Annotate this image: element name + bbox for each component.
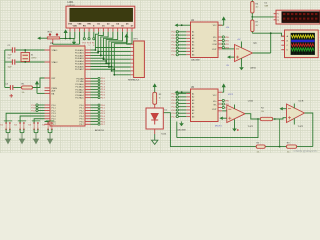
svg-text:A3: A3 [192,37,194,40]
svg-text:LCD1: LCD1 [68,2,75,4]
U5 right terminals [218,99,224,108]
svg-text:P0.7/AD7: P0.7/AD7 [75,68,84,71]
wire button S2 to P1.4 [20,116,44,123]
wire button S3 to P1.5 [34,119,44,123]
net labels U5 right [225,100,230,109]
junction R4 left [257,118,259,120]
op-amp U3 UA741 [235,43,258,70]
svg-text:1k: 1k [159,98,161,100]
resistor pack RP1 RESPACK-8 [128,39,144,82]
svg-text:A4: A4 [192,40,194,43]
ground under button S3 [33,129,39,143]
svg-text:PSEN: PSEN [52,88,58,90]
svg-text:VR-: VR- [213,41,216,43]
ground under button S1 [5,129,11,143]
svg-text:COM: COM [212,44,217,46]
ground under U3 [239,66,244,70]
svg-text:P3: P3 [277,20,279,22]
svg-text:P2: P2 [277,17,279,19]
svg-text:TL072: TL072 [298,126,305,128]
wire VDD rail [60,32,75,39]
svg-text:A1: A1 [192,31,194,34]
wire feedback lower rail [163,113,312,147]
svg-text:P2.7/A15: P2.7/A15 [75,97,84,100]
MCU right pin name labels [75,49,84,126]
resistor R7 [251,17,259,33]
svg-text:ALE: ALE [52,90,56,93]
junction XTAL nodes [24,49,26,63]
ground terminal at U4A plus input [219,117,226,120]
DAC U5 DAC0808 body [191,87,219,122]
svg-text:VDD: VDD [73,26,78,28]
wire XTAL2 [16,61,45,63]
wire U4A output to R4 [245,114,258,119]
capacitor C2 [5,57,15,68]
wire button S1 to P1.3 [6,113,44,122]
wire XTAL1 [16,49,45,51]
node RS RW E terminals [83,32,95,40]
wire feedback upper [177,119,258,138]
ground for LCD VSS [72,39,77,45]
svg-text:10k: 10k [261,111,264,113]
svg-text:A6: A6 [192,109,194,112]
svg-text:U4:A: U4:A [248,99,253,102]
svg-text:A2: A2 [192,96,194,99]
svg-text:A8: A8 [192,53,194,56]
net labels U2 right [225,37,230,50]
svg-text:P2.1/A9: P2.1/A9 [76,80,84,83]
svg-text:U4:B: U4:B [299,100,304,102]
svg-text:TL431: TL431 [161,134,166,136]
wire R1 to RST [33,78,45,88]
svg-text:P0.3/AD3: P0.3/AD3 [75,57,84,60]
watermark [294,149,318,153]
U4B power pins [293,104,295,125]
LED bar display pin labels [277,14,279,22]
svg-text:5: 5 [89,45,90,47]
push button S3 [28,121,40,130]
LCD module LCD1 labels [68,2,76,7]
wire to bar display [252,16,273,18]
ground terminal at U4B plus input [279,107,286,110]
junction U2 gnd [181,24,183,26]
svg-text:CSDN @dzsczzh: CSDN @dzsczzh [294,149,318,153]
junction lower rail [279,146,281,148]
ground under U4A [232,128,239,132]
power +5V for RP1 [124,34,130,45]
net label blue above U4A [228,94,233,96]
capacitor C1 [5,45,15,56]
svg-text:12MHz: 12MHz [31,58,37,60]
svg-text:10k: 10k [287,151,290,153]
power +5V terminal for LCD VDD [64,29,68,38]
net labels MCU P2 and P3 ports [101,78,106,126]
LED bar display segments [283,13,317,22]
svg-text:RW: RW [87,23,90,25]
power +5V at R2 [153,83,157,89]
resistor R3 [287,143,297,154]
node P1.0-P1.2 terminals [36,104,45,112]
resistor R5 [256,143,265,154]
resistor R4 [258,108,275,121]
oscilloscope pins [281,35,288,52]
wire LCD data bus to P0 and RP1 [91,32,132,75]
svg-text:RESPACK-8: RESPACK-8 [128,79,140,82]
push button S2 [14,121,26,130]
svg-text:P2.3/A11: P2.3/A11 [76,86,85,89]
svg-text:DAC0808: DAC0808 [191,59,201,62]
ground under U5 [179,122,184,127]
microcontroller U1 AT89C51 body [50,43,85,126]
U2 right terminals [218,36,224,49]
svg-text:P0.1/AD1: P0.1/AD1 [75,52,84,55]
svg-text:P0.6/AD6: P0.6/AD6 [75,65,84,68]
svg-text:4k7: 4k7 [256,25,259,27]
DAC U2 DAC0808 body [191,20,219,58]
svg-text:AT89C51: AT89C51 [95,129,105,132]
LED bar display body [276,10,320,24]
svg-text:DAC0808: DAC0808 [177,128,187,131]
wire R4 to U4B [275,118,287,119]
svg-text:VCC2: VCC2 [228,94,233,96]
ground under button S2 [19,129,25,143]
net labels U2 inputs [171,32,176,57]
svg-text:TL072: TL072 [248,126,255,128]
MCU value label AT89C51 [95,129,105,132]
svg-text:P0.5/AD5: P0.5/AD5 [75,63,84,66]
MCU right pins [85,50,91,124]
push button S1 [0,121,12,130]
wire VEE down [53,32,80,44]
svg-text:P0.2/AD2: P0.2/AD2 [75,54,84,57]
ground terminal at U3 plus input [227,55,235,58]
junction VDD [65,38,71,40]
scope trace A yellow [291,35,314,38]
svg-text:A1: A1 [192,92,194,95]
svg-text:P1: P1 [277,14,279,16]
scope trace C red [291,44,314,47]
ground under diode block [152,129,158,144]
wire U5 IOUT to U4A [218,109,227,111]
svg-text:A8: A8 [192,115,194,118]
LCD pins 1-14 [70,28,132,32]
svg-text:A7: A7 [192,112,194,115]
power +5V at U5 VCC [218,83,226,92]
scope trace B blue [291,40,314,43]
junction R6 R7 node [251,16,253,18]
U2 value label DAC0808 [191,59,201,62]
wire mid tap [279,119,281,147]
svg-text:MOUT1: MOUT1 [215,125,222,127]
svg-text:A2: A2 [192,34,194,37]
wire U2 IOUT to U3 [218,48,235,50]
svg-text:P2.6/A14: P2.6/A14 [75,94,84,97]
svg-text:A5: A5 [192,105,194,108]
diode block D1 [146,108,168,136]
LED bar display labels [265,2,269,7]
svg-text:A7: A7 [192,50,194,53]
wire ground rail left [4,50,6,88]
oscilloscope graticule [291,33,315,55]
U4A power pins [234,105,236,128]
junction dots P0 bus [95,49,116,76]
wire U3 node to scope [252,32,284,36]
power +5V at EA pin [35,81,45,94]
svg-text:P2.5/A13: P2.5/A13 [75,91,84,94]
svg-text:A6: A6 [192,47,194,50]
power +5V at U2 VCC [218,16,226,25]
svg-text:A3: A3 [192,99,194,102]
junction U5 gnd [181,91,183,93]
U2 inner pin labels [192,25,217,56]
resistor R2 [153,89,162,108]
svg-text:P0.4/AD4: P0.4/AD4 [75,60,84,63]
net label VCC blue [226,27,230,29]
wire button S4 to P1.6 [45,122,49,123]
svg-text:4k7: 4k7 [256,7,259,9]
crystal X1 [21,50,37,62]
MCU left pin name labels [52,49,59,126]
MCU left pins [45,50,51,124]
resistor R1 [22,83,33,94]
U5 inner pin labels [192,92,217,118]
net labels U5 inputs [171,93,176,118]
ground under button S4 [47,129,53,143]
scope trace D green [291,48,314,51]
ground terminal at U5 pin2 [175,91,191,94]
wire U3 output [253,33,271,53]
svg-text:XTAL2: XTAL2 [52,61,59,64]
svg-text:6: 6 [93,45,94,47]
U3 power pins [226,39,242,67]
svg-text:P2.0/A8: P2.0/A8 [76,77,84,80]
ground terminal left of RV1 [37,37,47,40]
svg-text:VEE: VEE [77,23,82,25]
svg-text:P2.4/A12: P2.4/A12 [75,88,84,91]
junction R4 right [274,118,276,120]
LCD screen [70,8,133,21]
svg-text:VR+: VR+ [213,101,217,103]
LCD pin name labels [68,22,134,27]
net label MOUT1 blue [215,125,222,127]
LCD LM016L body [66,6,135,28]
svg-text:A4: A4 [192,102,194,105]
node terminals MCU P2 and P3 ports [91,77,101,125]
svg-text:VR+: VR+ [213,37,217,39]
net labels P1.0-P1.2 [31,105,36,113]
op-amp U4:A TL072 [227,99,254,128]
ground terminal at U2 pin2 [175,24,191,27]
op-amp U4:B TL072 [287,100,305,128]
potentiometer RV1 [47,31,59,44]
svg-text:UA741: UA741 [250,67,257,70]
U5 value label DAC0808 [177,128,187,131]
U5 input terminals [176,93,190,118]
svg-text:10k: 10k [257,151,260,153]
capacitor C3 [5,83,22,97]
resistor R6 [251,0,259,17]
push button S4 [42,121,54,130]
svg-text:P0.0/AD0: P0.0/AD0 [75,49,84,52]
U2 input terminals A1-A8 [176,31,190,56]
svg-text:VR-: VR- [213,105,216,107]
oscilloscope body [285,30,319,58]
svg-text:XTAL1: XTAL1 [52,49,59,52]
net labels under RS RW E [82,43,95,47]
svg-text:10k: 10k [22,92,25,94]
svg-text:P2.2/A10: P2.2/A10 [75,83,84,86]
LED bar display pins [274,14,276,20]
wire U4B output loop [305,113,313,147]
svg-text:A5: A5 [192,44,194,47]
